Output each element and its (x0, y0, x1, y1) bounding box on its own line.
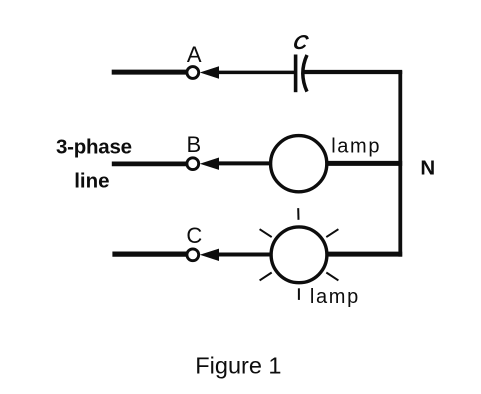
svg-text:Figure 1: Figure 1 (195, 353, 281, 379)
svg-text:lamp: lamp (331, 135, 379, 157)
svg-text:3-phase: 3-phase (56, 136, 132, 159)
svg-text:line: line (74, 169, 109, 192)
svg-text:B: B (187, 132, 202, 157)
svg-text:A: A (187, 42, 202, 67)
svg-text:lamp: lamp (310, 286, 358, 308)
svg-text:C: C (186, 223, 202, 248)
svg-text:N: N (420, 157, 435, 180)
